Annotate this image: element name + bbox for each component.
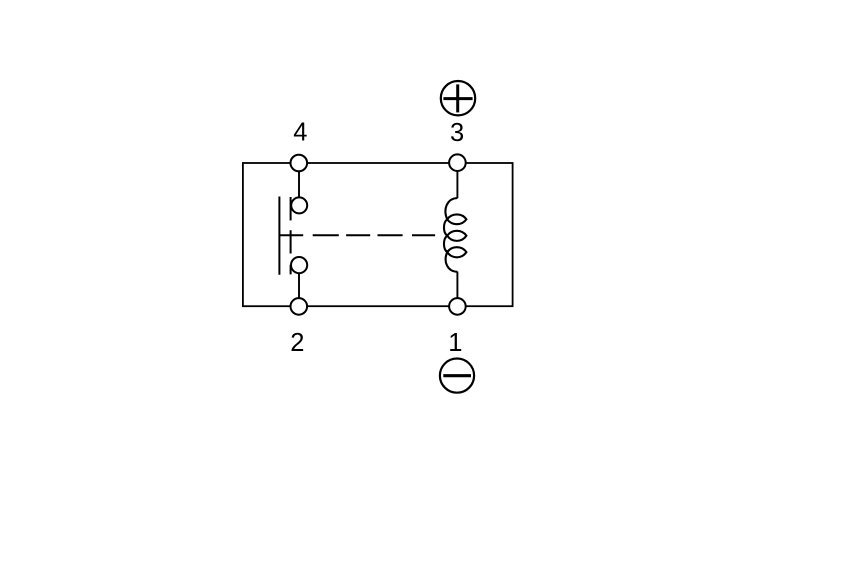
plus horizontal bar bbox=[443, 97, 472, 100]
pin 3 terminal bbox=[449, 154, 466, 171]
armature cross tick bbox=[279, 234, 303, 236]
actuator dashed vertical segment c bbox=[290, 265, 292, 275]
wire coil bottom to pin1 bbox=[456, 272, 458, 299]
linkage dash 3 bbox=[378, 234, 403, 236]
pin 4 terminal bbox=[291, 155, 308, 172]
plus supply symbol circle bbox=[441, 81, 475, 115]
minus horizontal bar bbox=[443, 374, 471, 377]
pin 1 terminal bbox=[449, 298, 466, 315]
svg-text:4: 4 bbox=[293, 119, 307, 147]
wire pin3 to coil top bbox=[456, 171, 458, 198]
linkage dash 1 bbox=[313, 234, 339, 236]
plus vertical bar bbox=[456, 84, 459, 112]
upper fixed contact bbox=[291, 197, 307, 213]
linkage dash 4 bbox=[412, 234, 435, 236]
linkage dash 2 bbox=[346, 234, 370, 236]
armature bar bbox=[278, 197, 280, 275]
pin 2 terminal bbox=[291, 298, 308, 315]
actuator dashed vertical segment a bbox=[290, 197, 292, 220]
svg-text:3: 3 bbox=[450, 119, 464, 147]
lower fixed contact bbox=[291, 257, 307, 273]
svg-text:1: 1 bbox=[448, 329, 462, 357]
actuator dashed vertical segment b bbox=[290, 230, 292, 253]
svg-text:2: 2 bbox=[290, 329, 304, 357]
wire pin4 to upper contact bbox=[298, 171, 300, 197]
wire lower contact to pin2 bbox=[298, 273, 300, 298]
minus supply symbol circle bbox=[440, 359, 474, 393]
relay body outline bbox=[243, 163, 513, 306]
coil winding bbox=[444, 198, 466, 272]
